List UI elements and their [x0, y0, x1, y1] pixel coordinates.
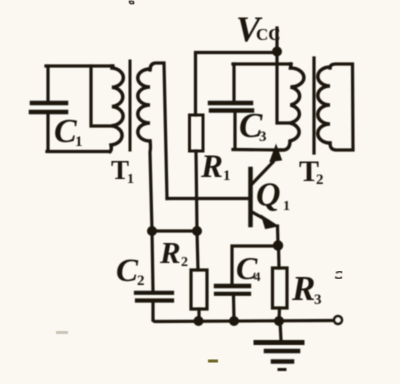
node C4-rail	[229, 316, 239, 326]
wire C1 loop bottom	[47, 150, 110, 153]
svg-text:2: 2	[137, 273, 145, 289]
wire T1 secondary top lead	[150, 63, 167, 199]
svg-text:CC: CC	[256, 25, 281, 44]
wire T1 primary tap	[91, 66, 111, 126]
terminal output	[334, 316, 342, 324]
svg-text:C: C	[54, 113, 77, 150]
wire Vcc rail to R1	[196, 53, 277, 116]
capacitor C4	[216, 286, 249, 320]
wire Vcc to T2 tap	[277, 52, 290, 124]
svg-text:3: 3	[259, 129, 267, 145]
resistor R2	[191, 231, 207, 321]
node Vcc	[272, 47, 282, 57]
emitter arrow	[262, 216, 279, 229]
svg-text:R: R	[159, 235, 181, 270]
node divider right	[192, 226, 202, 236]
capacitor C1	[31, 66, 66, 151]
svg-text:1: 1	[283, 199, 290, 214]
svg-text:4: 4	[254, 269, 261, 284]
capacitor C3	[210, 64, 252, 148]
transistor Q1 emitter	[252, 212, 268, 221]
svg-text:1: 1	[75, 134, 83, 150]
svg-text:2: 2	[181, 255, 188, 270]
transistor Q1 base bar	[248, 169, 253, 225]
ground	[256, 321, 302, 370]
node emitter	[273, 240, 283, 250]
transformer T2 secondary winding	[318, 67, 330, 143]
resistor R3	[273, 245, 288, 321]
wire base line	[167, 197, 249, 200]
transformer T1 core	[129, 61, 132, 150]
svg-text:C: C	[116, 253, 139, 289]
node divider left	[147, 226, 157, 236]
node ground-rail	[274, 316, 284, 326]
capacitor C2	[136, 231, 172, 320]
stray smudge bottom left	[56, 331, 68, 334]
wire bottom rail	[153, 320, 333, 322]
svg-text:Q: Q	[256, 177, 281, 214]
svg-text:1: 1	[127, 172, 134, 187]
svg-text:3: 3	[314, 292, 322, 308]
transformer T1 secondary winding	[138, 69, 150, 141]
wire Vcc stem	[275, 28, 278, 51]
stray mark right	[335, 272, 342, 279]
wire T1 secondary bottom lead	[150, 141, 152, 231]
wire R1 bottom to divider node	[196, 151, 197, 231]
wire T2 secondary loop	[330, 64, 353, 150]
svg-text:R: R	[291, 269, 315, 308]
wire emitter node to C4	[232, 246, 278, 284]
resistor R1	[190, 115, 204, 151]
wire divider row	[152, 229, 197, 232]
svg-text:2: 2	[316, 172, 324, 188]
transformer T2 core	[312, 58, 315, 153]
stray mark top	[129, 1, 134, 4]
stray mark bottom center	[208, 360, 218, 363]
transformer T2 primary winding	[279, 64, 304, 150]
node R2-rail	[194, 316, 204, 326]
transistor Q1 collector	[252, 162, 273, 184]
svg-text:1: 1	[223, 168, 231, 184]
svg-text:R: R	[200, 149, 223, 185]
wire emitter to node	[276, 226, 280, 244]
wire C3 loop top	[233, 62, 291, 65]
collector arrow	[270, 145, 282, 162]
transformer T1 primary winding	[110, 66, 123, 152]
wire C3 loop bottom	[233, 148, 281, 152]
wire C1 loop top	[46, 64, 113, 67]
